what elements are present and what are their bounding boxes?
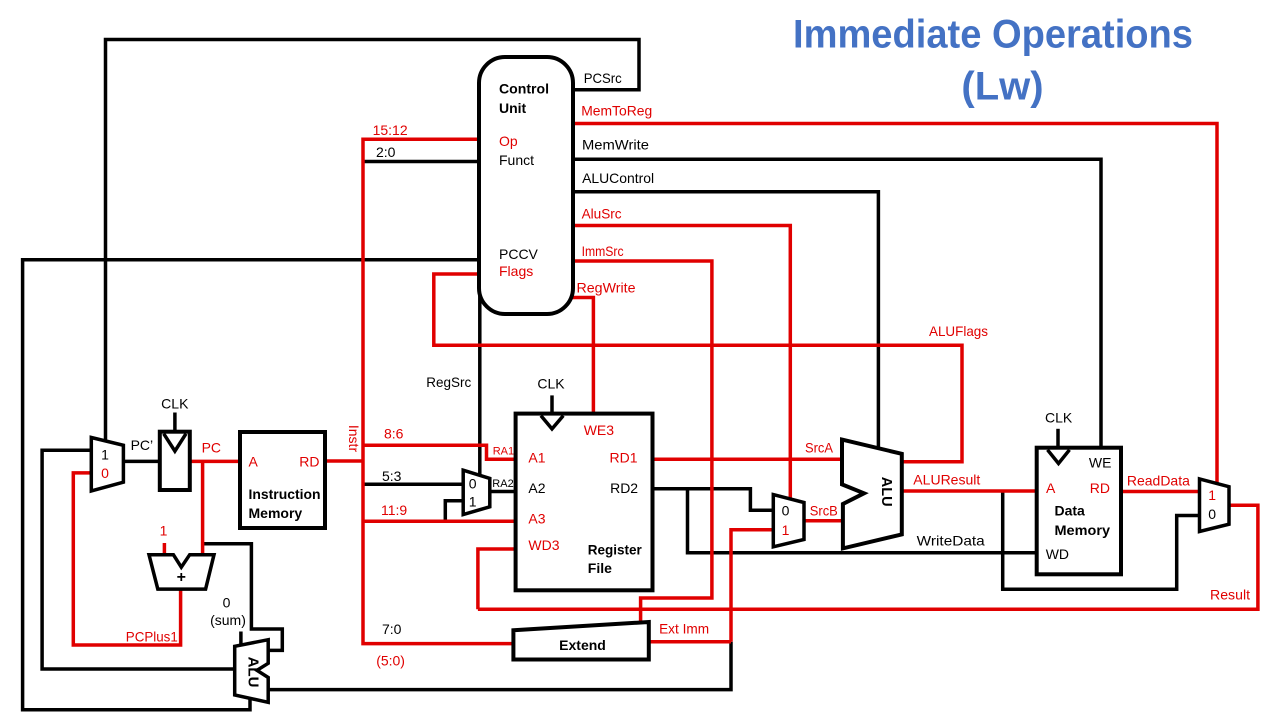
- mux Result (MemToReg mux): [1200, 479, 1230, 532]
- svg-text:0: 0: [1208, 506, 1216, 522]
- svg-text:SrcB: SrcB: [810, 503, 838, 519]
- svg-text:ALU: ALU: [878, 477, 894, 507]
- wire ALUControl: CU right, down into ALU top: [571, 192, 878, 449]
- svg-text:Funct: Funct: [499, 152, 534, 168]
- svg-text:Unit: Unit: [499, 100, 527, 116]
- wire RA2: mux out to Register File A2: [490, 490, 516, 494]
- svg-text:A1: A1: [528, 450, 545, 466]
- wire 15:12 Op with Instr bus down and 7:0 into Extend: [363, 139, 514, 643]
- svg-text:8:6: 8:6: [384, 426, 404, 442]
- wire PC branch to bottom ALU jog: [203, 544, 283, 651]
- svg-text:11:9: 11:9: [381, 502, 407, 518]
- wire MemToReg: CU right, down to result mux select: [571, 124, 1217, 484]
- svg-text:WD: WD: [1046, 546, 1069, 562]
- clock wedge register file: [541, 416, 563, 429]
- mux SrcB (AluSrc mux): [773, 495, 804, 547]
- clock wedge PC: [164, 434, 186, 451]
- wire ReadData: Data Memory out to result mux input 1: [1120, 490, 1200, 494]
- svg-text:WriteData: WriteData: [917, 533, 985, 549]
- wire PCPlus1: adder out, down, left, up, PC mux input 0: [73, 473, 180, 645]
- svg-text:Register: Register: [588, 542, 643, 558]
- svg-text:RD2: RD2: [610, 480, 638, 496]
- svg-text:(Lw): (Lw): [961, 65, 1043, 109]
- svg-text:WD3: WD3: [528, 537, 559, 553]
- wire RD1 SrcA to ALU: [652, 457, 843, 461]
- svg-text:1: 1: [1208, 487, 1216, 503]
- svg-text:RegSrc: RegSrc: [426, 374, 471, 390]
- wire RegSrc select: CU bottom to RA2 mux top: [478, 290, 482, 475]
- svg-text:Memory: Memory: [1055, 522, 1111, 538]
- wire Ext Imm: Extend out to node: [648, 640, 731, 644]
- svg-text:ALUFlags: ALUFlags: [929, 323, 988, 339]
- svg-text:Instruction: Instruction: [249, 486, 321, 502]
- wire PC: register out to Instruction Memory A: [189, 460, 242, 464]
- svg-text:A: A: [249, 453, 259, 469]
- register file: [516, 414, 653, 591]
- register PC: [160, 396, 190, 491]
- mux RA2 (RegSrc mux): [463, 470, 490, 514]
- wire Flags ALUFlags: ALU right, up, left, up to CU Flags: [434, 274, 962, 462]
- svg-text:PC: PC: [202, 440, 221, 456]
- clock stub data memory: [1056, 429, 1060, 448]
- instruction memory: [240, 432, 325, 528]
- svg-text:SrcA: SrcA: [805, 440, 834, 456]
- wire PCSrc loop: CU right, up, left, down into PC mux select: [106, 40, 640, 442]
- svg-text:1: 1: [101, 447, 109, 463]
- svg-text:A3: A3: [528, 511, 545, 527]
- control unit U1: [479, 57, 573, 314]
- wire AluSrc: CU right, down to SrcB mux select: [571, 226, 790, 500]
- wire RegWrite: CU right, down into Register File WE3: [560, 298, 593, 416]
- svg-text:RD: RD: [299, 453, 319, 469]
- wire ALUResult: ALU out to Data Memory A: [901, 489, 1038, 493]
- svg-text:RA2: RA2: [492, 478, 513, 490]
- svg-text:CLK: CLK: [537, 376, 565, 392]
- svg-text:PCCV: PCCV: [499, 246, 539, 262]
- adder (+): [149, 555, 214, 589]
- clock stub PC: [173, 413, 177, 432]
- svg-text:CLK: CLK: [161, 396, 189, 412]
- alu main: [842, 440, 902, 549]
- wire PC1: PC mux out to PC register: [123, 460, 160, 464]
- alu PCALU (bottom-left): [235, 640, 269, 703]
- svg-text:0: 0: [782, 503, 790, 519]
- clock stub register file: [550, 395, 554, 413]
- clock wedge data memory: [1048, 450, 1070, 464]
- svg-text:ReadData: ReadData: [1127, 473, 1190, 489]
- wire 5:3 tap to RA2 mux input 0: [363, 483, 463, 487]
- wire constant 1 stub into adder: [163, 543, 167, 556]
- svg-text:1: 1: [469, 494, 477, 510]
- wire PC mux input 1 loop from bottom ALU: [42, 450, 234, 669]
- svg-text:Ext Imm: Ext Imm: [659, 621, 709, 637]
- svg-text:Data: Data: [1055, 502, 1086, 518]
- svg-text:A2: A2: [528, 480, 545, 496]
- svg-text:0: 0: [101, 465, 109, 481]
- svg-text:Instr: Instr: [346, 425, 362, 453]
- svg-text:ALUResult: ALUResult: [913, 472, 980, 488]
- wire Result: mux out, right, down, left to WD3 riser: [478, 505, 1258, 609]
- svg-text:RD: RD: [1090, 480, 1110, 496]
- wire PCCV loop: CU left, far left, bottom, bottom ALU stub: [23, 260, 480, 710]
- extend unit: [513, 622, 648, 660]
- wire RD2 junction down and WriteData: [688, 489, 1038, 553]
- svg-text:WE: WE: [1089, 455, 1112, 471]
- wire MemWrite: CU right, down into Data Memory WE: [571, 159, 1101, 449]
- svg-text:PC’: PC’: [131, 437, 154, 453]
- svg-text:(5:0): (5:0): [376, 653, 405, 669]
- svg-text:Op: Op: [499, 133, 518, 149]
- svg-text:WE3: WE3: [584, 422, 615, 438]
- wire WD3 from Result line: [478, 549, 516, 609]
- svg-text:AluSrc: AluSrc: [582, 206, 622, 222]
- svg-text:ALUControl: ALUControl: [582, 170, 654, 186]
- wire PC branch down to adder: [201, 461, 205, 555]
- wire RD: Instruction Memory out to Instr bus: [323, 459, 363, 463]
- svg-text:PCSrc: PCSrc: [584, 70, 622, 86]
- svg-text:+: +: [177, 569, 186, 586]
- svg-text:1: 1: [782, 522, 790, 538]
- svg-text:MemToReg: MemToReg: [581, 103, 652, 119]
- svg-text:A: A: [1046, 480, 1056, 496]
- mux PC (PCSrc mux): [91, 438, 123, 492]
- wire RD2 to SrcB mux input 0: [652, 489, 773, 510]
- svg-text:RegWrite: RegWrite: [577, 280, 636, 296]
- svg-text:Memory: Memory: [249, 505, 303, 521]
- svg-text:File: File: [588, 560, 612, 576]
- svg-text:0: 0: [469, 476, 477, 492]
- svg-text:Control: Control: [499, 81, 549, 97]
- wire RA2 mux input 1 stub from 11:9: [445, 501, 463, 521]
- svg-text:Result: Result: [1210, 587, 1250, 603]
- svg-text:Extend: Extend: [559, 637, 606, 653]
- svg-text:MemWrite: MemWrite: [582, 136, 649, 152]
- svg-text:7:0: 7:0: [382, 621, 402, 637]
- svg-text:0: 0: [223, 595, 231, 611]
- data memory: [1037, 448, 1121, 575]
- svg-text:PCPlus1: PCPlus1: [126, 629, 178, 645]
- wire bottom ALU output right then up to ExtImm node: [269, 642, 731, 690]
- svg-text:2:0: 2:0: [376, 144, 396, 160]
- wire 8:6 tap to RA1 into Register File A1: [363, 445, 516, 459]
- svg-text:RD1: RD1: [609, 450, 637, 466]
- svg-text:RA1: RA1: [493, 446, 514, 458]
- svg-text:15:12: 15:12: [373, 122, 408, 138]
- svg-text:1: 1: [160, 523, 168, 539]
- wire SrcB: mux out to ALU: [804, 519, 844, 523]
- svg-text:ALU: ALU: [245, 657, 262, 688]
- svg-text:Immediate Operations: Immediate Operations: [793, 13, 1193, 57]
- svg-text:ImmSrc: ImmSrc: [582, 243, 624, 259]
- wire 11:9 tap to Register File A3: [363, 520, 516, 524]
- svg-text:(sum): (sum): [210, 612, 246, 628]
- wire ALUResult bypass to result mux input 0: [1003, 491, 1200, 589]
- svg-text:5:3: 5:3: [382, 468, 402, 484]
- wire ExtImm up to SrcB mux input 1: [731, 530, 773, 642]
- svg-text:Flags: Flags: [499, 263, 533, 279]
- wire ImmSrc: CU right, down, left, down into Extend: [571, 261, 712, 625]
- wire 2:0 Funct tap: [363, 160, 480, 164]
- svg-text:CLK: CLK: [1045, 410, 1073, 426]
- wire 0 (sum) stub into bottom ALU top: [239, 632, 243, 646]
